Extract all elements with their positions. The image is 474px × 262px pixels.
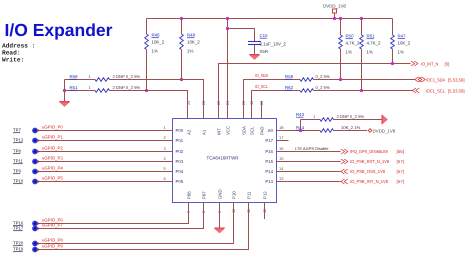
svg-text:[57]: [57] <box>397 159 405 164</box>
svg-text:10K_2: 10K_2 <box>398 41 411 46</box>
svg-text:10K_2: 10K_2 <box>187 40 200 45</box>
junction row1/row2 <box>63 89 66 92</box>
wire IO_SCL <box>252 91 413 119</box>
svg-text:1%: 1% <box>398 50 404 55</box>
ground C15 <box>249 54 259 56</box>
wire net uGPIO_P9 <box>37 203 249 250</box>
wire IO_SDA <box>244 80 415 119</box>
svg-text:R50: R50 <box>346 34 355 39</box>
svg-text:[5]: [5] <box>445 61 450 66</box>
svg-text:P10: P10 <box>231 191 236 199</box>
offpage IO_PSE_OSS_1V8 <box>341 169 348 174</box>
svg-text:P15: P15 <box>265 159 273 164</box>
pin 4 P03 <box>161 161 173 163</box>
svg-text:P04: P04 <box>176 169 184 174</box>
svg-text:TP9: TP9 <box>13 169 21 174</box>
pin 17 P17 <box>277 140 289 142</box>
svg-text:0_2 5%: 0_2 5% <box>316 74 330 79</box>
pin 15 P15 <box>277 161 289 163</box>
pin 1 P00 <box>161 130 173 132</box>
svg-text:2 DNP 0_2 5%: 2 DNP 0_2 5% <box>113 74 141 79</box>
svg-text:I/O Expander: I/O Expander <box>5 20 113 40</box>
offpage IO_INT_N <box>411 61 418 66</box>
wire branch to C15 <box>226 27 229 30</box>
resistor R51 DNP <box>95 89 110 93</box>
svg-text:SCL: SCL <box>249 126 254 135</box>
svg-text:1%: 1% <box>367 50 373 55</box>
pin 16 P16 <box>277 151 289 153</box>
svg-text:18: 18 <box>279 125 284 130</box>
wire R46 to row2 <box>146 50 148 91</box>
svg-text:DVDD_1V8: DVDD_1V8 <box>323 4 346 9</box>
wire net uGPIO_P7 <box>37 203 204 229</box>
svg-text:R62: R62 <box>285 85 294 90</box>
testpoint TP20 <box>32 241 38 247</box>
wire net IO_PSE_OSS_1V8 <box>289 171 341 173</box>
resistor R47 <box>392 19 394 36</box>
testpoint TP11 <box>32 159 38 165</box>
svg-text:P12: P12 <box>262 191 267 199</box>
svg-text:P13: P13 <box>265 179 273 184</box>
wire net uGPIO_P1 <box>37 140 161 142</box>
svg-text:R48: R48 <box>187 33 196 38</box>
svg-text:2 DNP 0_2 5%: 2 DNP 0_2 5% <box>337 114 365 119</box>
svg-text:21: 21 <box>225 101 230 105</box>
resistor R62 <box>300 89 314 93</box>
svg-text:C15: C15 <box>260 33 269 38</box>
svg-text:[5,53,59]: [5,53,59] <box>448 88 465 93</box>
resistor R48 <box>180 17 183 20</box>
svg-text:P11: P11 <box>246 191 251 199</box>
wire net uGPIO_P4 <box>37 171 161 173</box>
wire P12 stub <box>264 203 266 220</box>
testpoint TP16 <box>32 221 38 227</box>
svg-text:A2: A2 <box>186 129 191 135</box>
svg-text:P17: P17 <box>265 138 273 143</box>
svg-text:25: 25 <box>259 101 264 105</box>
svg-text:uGPIO_P4: uGPIO_P4 <box>42 166 63 171</box>
svg-text:DVDD_1V8: DVDD_1V8 <box>373 129 396 134</box>
svg-text:TP19: TP19 <box>13 247 24 252</box>
svg-text:P01: P01 <box>176 138 184 143</box>
junction R48/row1 <box>180 78 183 81</box>
svg-text:Write:: Write: <box>2 57 24 64</box>
svg-text:VCC: VCC <box>225 126 230 135</box>
svg-text:16: 16 <box>279 146 284 151</box>
svg-text:uGPIO_P0: uGPIO_P0 <box>42 125 63 130</box>
svg-text:[57]: [57] <box>397 169 405 174</box>
wire R43 row <box>301 119 382 121</box>
svg-text:SDA: SDA <box>241 126 246 135</box>
junction A0/R43 <box>299 129 302 132</box>
svg-text:R47: R47 <box>398 34 407 39</box>
svg-text:uGPIO_P8: uGPIO_P8 <box>42 238 63 243</box>
wire net uGPIO_P6 <box>37 203 189 224</box>
svg-text:P00: P00 <box>176 128 184 133</box>
svg-text:INT: INT <box>216 128 221 135</box>
svg-text:TP10: TP10 <box>13 179 24 184</box>
svg-text:0_2 5%: 0_2 5% <box>316 85 330 90</box>
svg-text:P16: P16 <box>265 149 273 154</box>
wire net uGPIO_P5 <box>37 181 161 183</box>
pin 5 P04 <box>161 171 173 173</box>
svg-text:14: 14 <box>279 166 284 171</box>
offpage IOC1_SCL <box>413 88 420 93</box>
svg-text:IO_SDA: IO_SDA <box>255 73 268 78</box>
pin 18 A0 <box>277 130 289 132</box>
wire net IO_PSE_RST_N_1V8 <box>289 161 341 163</box>
wire net uGPIO_P8 <box>37 203 234 244</box>
resistor R58 <box>300 78 314 82</box>
svg-text:IO_PSE_OSS_1V8: IO_PSE_OSS_1V8 <box>350 169 386 174</box>
svg-text:uGPIO_P3: uGPIO_P3 <box>42 156 63 161</box>
svg-text:P06: P06 <box>186 191 191 199</box>
svg-text:TP17: TP17 <box>13 226 24 231</box>
svg-text:4.7K_2: 4.7K_2 <box>346 41 360 46</box>
svg-text:P03: P03 <box>176 159 184 164</box>
svg-text:IO_SCL: IO_SCL <box>255 84 268 89</box>
offpage IPQ_GPS_DISABLE# <box>341 149 348 154</box>
ground strap rows <box>59 101 69 103</box>
svg-text:PAD: PAD <box>259 126 264 135</box>
svg-text:IOC1_SCL: IOC1_SCL <box>426 88 446 93</box>
svg-text:1%: 1% <box>346 50 352 55</box>
resistor R43 DNP <box>320 118 334 122</box>
svg-text:LTE AGPS Disable: LTE AGPS Disable <box>295 146 329 151</box>
resistor R50 <box>339 17 342 20</box>
svg-text:IOC1_SDA: IOC1_SDA <box>426 77 445 82</box>
testpoint TP7 <box>32 128 38 134</box>
pin 2 P01 <box>161 140 173 142</box>
svg-text:10K_2 1%: 10K_2 1% <box>341 125 361 130</box>
svg-text:17: 17 <box>279 135 284 140</box>
svg-text:IO_INT_N: IO_INT_N <box>421 61 438 66</box>
wire GND pin9 <box>219 203 221 229</box>
svg-text:TP8: TP8 <box>13 149 21 154</box>
svg-text:R58: R58 <box>285 74 294 79</box>
testpoint TP8 <box>32 149 38 155</box>
wire VCC pin21 to rail <box>227 19 229 119</box>
power rail DVDD_1V8 <box>147 18 393 20</box>
svg-text:uGPIO_P2: uGPIO_P2 <box>42 146 63 151</box>
svg-text:P02: P02 <box>176 149 184 154</box>
svg-text:10K_2: 10K_2 <box>152 40 165 45</box>
svg-text:[55]: [55] <box>397 149 405 154</box>
svg-text:R46: R46 <box>152 33 161 38</box>
svg-text:Address :: Address : <box>2 43 35 50</box>
svg-text:uGPIO_P1: uGPIO_P1 <box>42 135 63 140</box>
svg-text:1%: 1% <box>187 49 193 54</box>
svg-text:15: 15 <box>279 156 284 161</box>
svg-text:uGPIO_P5: uGPIO_P5 <box>42 176 63 181</box>
pin 6 P05 <box>161 181 173 183</box>
svg-text:13: 13 <box>279 176 284 181</box>
wire net uGPIO_P3 <box>37 161 161 163</box>
svg-text:1%: 1% <box>152 49 158 54</box>
svg-text:X5R: X5R <box>260 49 269 54</box>
pin 25 PAD <box>261 101 263 119</box>
svg-text:A1: A1 <box>201 129 206 135</box>
pin 14 P14 <box>277 171 289 173</box>
svg-text:uGPIO_P7: uGPIO_P7 <box>42 223 63 228</box>
wire net uGPIO_P2 <box>37 151 161 153</box>
svg-text:22: 22 <box>216 101 221 105</box>
svg-text:TP11: TP11 <box>13 159 24 164</box>
offpage IOC1_SDA <box>415 77 422 82</box>
svg-text:P05: P05 <box>176 179 184 184</box>
power symbol DVDD_1V8 A0 <box>368 129 372 133</box>
testpoint TP19 <box>32 247 38 253</box>
pin 3 P02 <box>161 151 173 153</box>
offpage IO_PSE_RST_N_1V8 <box>341 159 348 164</box>
capacitor C15 <box>248 41 261 43</box>
wire row2 A2 strap <box>65 80 188 119</box>
svg-text:0.1uF_10V_2: 0.1uF_10V_2 <box>260 42 287 47</box>
wire row1 A1 strap <box>65 80 204 119</box>
testpoint TP17 <box>32 226 38 232</box>
svg-text:TCA6416RTWR: TCA6416RTWR <box>207 156 240 161</box>
svg-text:23: 23 <box>201 101 206 105</box>
offpage IO_PSE_INT_N_1V8 <box>341 179 348 184</box>
svg-text:[57]: [57] <box>397 179 405 184</box>
svg-text:R61: R61 <box>367 34 376 39</box>
svg-text:R43: R43 <box>296 112 305 117</box>
svg-text:Read:: Read: <box>2 50 21 57</box>
svg-text:uGPIO_P9: uGPIO_P9 <box>42 244 63 249</box>
svg-text:IO_PSE_RST_N_1V8: IO_PSE_RST_N_1V8 <box>350 159 390 164</box>
svg-text:TP7: TP7 <box>13 128 21 133</box>
testpoint TP9 <box>32 169 38 175</box>
resistor R56 DNP <box>95 78 110 82</box>
svg-text:4.7K_2: 4.7K_2 <box>367 41 381 46</box>
wire net uGPIO_P0 <box>37 130 161 132</box>
svg-text:R56: R56 <box>70 74 79 79</box>
svg-text:IO_PSE_INT_N_1V8: IO_PSE_INT_N_1V8 <box>350 179 389 184</box>
junction R47 <box>391 62 394 65</box>
svg-text:P07: P07 <box>201 191 206 199</box>
wire to ground <box>64 91 66 102</box>
resistor R46 <box>146 19 148 35</box>
svg-text:[5,53,59]: [5,53,59] <box>448 77 465 82</box>
wire A0 pullup <box>289 130 368 132</box>
resistor R44 <box>320 129 334 133</box>
IC U1 TCA6416RTWR <box>173 119 277 203</box>
pin 13 P13 <box>277 181 289 183</box>
svg-text:A0: A0 <box>268 128 274 133</box>
svg-text:IPQ_GPS_DISABLE#: IPQ_GPS_DISABLE# <box>350 149 388 154</box>
svg-text:TP20: TP20 <box>13 241 24 246</box>
wire net IO_PSE_INT_N_1V8 <box>289 181 341 183</box>
junction R50 <box>339 78 342 81</box>
ground R43 rotated <box>381 115 383 124</box>
svg-text:GND: GND <box>217 189 222 199</box>
svg-text:TP13: TP13 <box>13 138 24 143</box>
junction R61 <box>360 89 363 92</box>
ground pin9 <box>214 227 224 229</box>
wire IO_INT_N <box>219 64 411 119</box>
svg-text:R51: R51 <box>70 85 79 90</box>
svg-text:19: 19 <box>249 101 254 105</box>
testpoint TP13 <box>32 138 38 144</box>
svg-text:2 DNP 0_2 5%: 2 DNP 0_2 5% <box>113 85 141 90</box>
junction R46/row2 <box>145 89 148 92</box>
junction rail/DVDD <box>333 17 336 20</box>
testpoint TP10 <box>32 179 38 185</box>
svg-text:P14: P14 <box>265 169 273 174</box>
resistor R61 <box>360 17 363 20</box>
wire net IPQ_GPS_DISABLE# <box>289 151 341 153</box>
